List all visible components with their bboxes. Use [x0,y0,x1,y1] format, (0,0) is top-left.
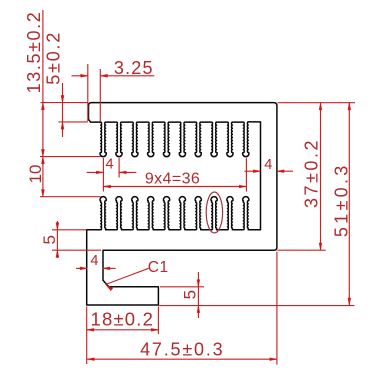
extension line x=87.8 (3.25 left) [87,64,89,121]
extension line x=158.4 (18 right) [157,307,159,335]
svg-text:13.5±0.2: 13.5±0.2 [24,11,44,94]
dimension 37±0.2 [320,103,322,251]
svg-text:10: 10 [26,165,45,184]
dimension 51±0.3 [348,103,350,306]
svg-text:4: 4 [105,157,113,173]
extension line x=103.4 (pitch left) [102,158,104,192]
dimension 4 (fin pitch) [87,171,104,173]
svg-text:5: 5 [181,290,200,299]
dimension 18±0.2 [87,329,159,331]
extension line top face left [41,102,89,104]
extension line x=119.1 (pitch right) [118,158,120,178]
serration highlight ellipse on lower fin [206,192,222,233]
dimension 9x4=36 [103,186,246,188]
extension line x=246.4 (9x4 right) [245,158,247,192]
svg-text:47.5±0.3: 47.5±0.3 [140,340,224,360]
dimension 3.25 [72,75,88,77]
dimension 5±0.2 [62,83,64,137]
svg-text:3.25: 3.25 [114,58,154,78]
svg-text:18±0.2: 18±0.2 [90,308,154,329]
svg-text:C1: C1 [148,259,169,276]
extension line tab bottom right [159,305,355,307]
svg-text:51±0.3: 51±0.3 [331,162,351,237]
dimension 4 (bottom left) [76,267,87,269]
svg-text:4: 4 [264,157,272,173]
dimension 5 (left, plate) [56,221,58,258]
extension line x=276.9 right bottom [276,252,278,365]
heatsink profile outline [87,103,277,305]
leader C1 chamfer [106,285,113,291]
extension line lower plate top [52,229,87,231]
extension line body bottom right [278,249,326,251]
svg-text:37±0.2: 37±0.2 [302,138,322,208]
svg-text:5: 5 [40,235,59,244]
extension line pocket floor [160,286,204,288]
extension line plate bottom left [59,121,89,123]
dimension 13.5±0.2 [42,10,44,197]
dimension 10 [41,157,44,164]
dimension 5 (bottom right) [197,272,199,318]
extension line top face right [278,102,356,104]
dimension 4 (right wall) [245,170,261,172]
extension line x=100.3 (3.25 right) [99,69,101,122]
extension line x=86.7 bottom left [86,307,88,365]
svg-text:9x4=36: 9x4=36 [145,171,200,188]
extension line body bottom left [52,249,101,251]
extension line lower fin tops [40,196,101,198]
extension line upper fin tips [40,156,101,158]
svg-text:5±0.2: 5±0.2 [44,31,64,85]
svg-text:4: 4 [90,253,98,269]
dimension 47.5±0.3 [87,358,277,360]
